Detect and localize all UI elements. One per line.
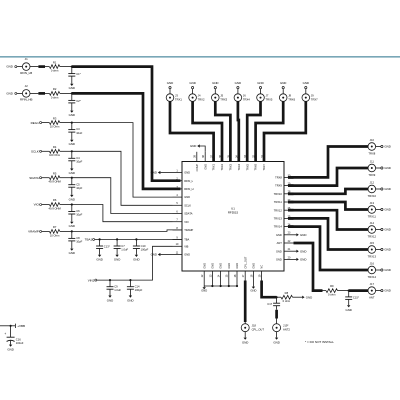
svg-text:GND: GND: [384, 208, 390, 212]
resistor R2 0 ohm: [49, 92, 59, 96]
U1 pin 5 SCLK (left): [173, 204, 183, 206]
svg-text:GND: GND: [384, 228, 390, 232]
svg-text:R2: R2: [53, 87, 57, 91]
svg-text:TRX4: TRX4: [243, 98, 250, 102]
ground below C14: [129, 296, 132, 298]
svg-text:RFIN_LB: RFIN_LB: [20, 71, 32, 75]
ground at J17: [381, 290, 383, 292]
svg-text:R6: R6: [53, 198, 57, 202]
svg-text:J1: J1: [25, 57, 28, 61]
svg-text:GND: GND: [69, 251, 75, 255]
svg-text:GND: GND: [384, 268, 390, 272]
svg-text:GND: GND: [96, 258, 102, 262]
ground below J19: [275, 338, 278, 340]
svg-text:TRX11: TRX11: [274, 200, 282, 204]
wire U1 TRX13 to J15: [288, 218, 368, 249]
svg-text:0 ohm: 0 ohm: [283, 299, 291, 303]
svg-text:J7: J7: [266, 94, 269, 98]
connector J10 TRX8: [368, 143, 376, 151]
U1 pin 7 VIO (left): [173, 221, 183, 223]
U1 pin 35 TRX3 (top): [229, 152, 231, 162]
svg-text:GND: GND: [69, 197, 75, 201]
capacitor C8 10pF: [71, 230, 73, 232]
svg-text:GND: GND: [133, 258, 139, 262]
svg-text:GND: GND: [189, 81, 195, 85]
svg-text:RF5515: RF5515: [228, 211, 239, 215]
svg-text:R4: R4: [53, 145, 57, 149]
ground below C16: [9, 345, 12, 347]
svg-text:TBA: TBA: [184, 238, 189, 242]
svg-text:GND: GND: [69, 86, 75, 90]
U1 pin 14 GND (bottom): [220, 271, 222, 281]
U1 pin 15 GND (bottom): [228, 271, 230, 281]
svg-text:TRX9: TRX9: [368, 173, 375, 177]
svg-text:+VBB: +VBB: [17, 324, 25, 328]
svg-text:TRX13: TRX13: [274, 217, 283, 221]
svg-text:C4: C4: [76, 156, 80, 160]
svg-text:C5: C5: [76, 182, 80, 186]
capacitor C4 10pF: [71, 150, 73, 152]
svg-text:VIB: VIB: [184, 244, 188, 248]
ground below C4: [70, 169, 73, 171]
svg-text:TRX12: TRX12: [274, 208, 283, 212]
ground at U1 right pin 21: [294, 250, 297, 252]
svg-text:TRX1: TRX1: [175, 98, 182, 102]
svg-text:RFIN_H: RFIN_H: [184, 187, 193, 191]
svg-text:TRX1: TRX1: [212, 163, 216, 170]
svg-text:SCLK: SCLK: [31, 150, 39, 154]
ground at U1 bottom pin 18: [252, 281, 254, 287]
svg-text:C10: C10: [141, 244, 146, 248]
U1 pin 9 TBA (left): [173, 238, 183, 240]
svg-text:GND: GND: [276, 258, 282, 262]
op-amp U1 body (IC RF5515 QFN outline): [182, 162, 284, 272]
wire REG1 to U1 pin 4: [72, 123, 173, 198]
svg-text:100pF: 100pF: [141, 247, 149, 251]
svg-text:J15: J15: [370, 241, 375, 245]
svg-text:J10: J10: [370, 138, 375, 142]
svg-text:GND: GND: [69, 113, 75, 117]
svg-text:GND: GND: [276, 233, 282, 237]
ground at J14: [381, 228, 383, 230]
svg-text:ANT: ANT: [369, 295, 375, 299]
svg-text:SDATA: SDATA: [29, 176, 39, 180]
svg-text:J9: J9: [311, 94, 314, 98]
page divider line: [0, 56, 400, 58]
ground below C5: [70, 195, 73, 197]
capacitor C5 10pF: [71, 177, 73, 179]
svg-text:GND: GND: [257, 81, 263, 85]
wire TRX4 connector to U1: [237, 101, 241, 161]
connector J14 TRX12: [368, 226, 376, 234]
svg-text:GND: GND: [69, 171, 75, 175]
svg-text:C16: C16: [16, 337, 21, 341]
svg-text:J17: J17: [370, 282, 375, 286]
svg-text:J4: J4: [198, 94, 201, 98]
svg-text:GND: GND: [69, 142, 75, 146]
svg-text:GND: GND: [235, 263, 239, 269]
svg-text:10pF: 10pF: [76, 160, 82, 164]
svg-text:10 Ohm: 10 Ohm: [50, 125, 60, 129]
svg-text:GND: GND: [250, 288, 256, 292]
U1 pin 18 GND (bottom): [252, 271, 254, 281]
ground at J15: [381, 248, 383, 250]
ground at J16: [381, 269, 383, 271]
svg-text:GND: GND: [201, 288, 207, 292]
connector J12 TRX10: [368, 185, 376, 193]
svg-text:10pF: 10pF: [76, 213, 82, 217]
ground below C8: [70, 249, 73, 251]
U1 pin 12 GND (bottom): [203, 271, 205, 281]
svg-text:GND: GND: [384, 187, 390, 191]
svg-text:GND: GND: [273, 341, 279, 345]
svg-text:TRX14: TRX14: [274, 225, 283, 229]
ground at J10: [381, 145, 383, 147]
svg-text:TRX10: TRX10: [368, 194, 377, 198]
ground at U1 right pin 20: [294, 258, 297, 260]
svg-text:10 Ohm: 10 Ohm: [50, 233, 60, 237]
ground at J12: [381, 188, 383, 190]
ground below C6: [70, 222, 73, 224]
svg-text:TRX14: TRX14: [368, 275, 377, 279]
svg-text:GND: GND: [276, 249, 282, 253]
svg-text:J3: J3: [175, 94, 178, 98]
svg-text:GND: GND: [227, 263, 231, 269]
node NC junction: [276, 296, 278, 298]
svg-text:TRX12: TRX12: [368, 234, 377, 238]
svg-text:C13*: C13*: [104, 245, 110, 249]
svg-text:GND: GND: [190, 144, 196, 148]
svg-text:GND: GND: [384, 166, 390, 170]
ground below C2*: [70, 111, 73, 113]
svg-text:C6: C6: [76, 209, 80, 213]
microstrip segment to J19: [275, 310, 278, 319]
svg-text:GND: GND: [300, 249, 306, 253]
U1 pin 38 GND (top): [204, 152, 206, 162]
svg-text:CPL_OUT: CPL_OUT: [243, 256, 247, 268]
svg-text:GND: GND: [211, 263, 215, 269]
svg-text:TRX7: TRX7: [311, 98, 318, 102]
svg-text:J5: J5: [220, 94, 223, 98]
svg-text:VIN2: VIN2: [88, 278, 95, 282]
svg-text:TRX6: TRX6: [254, 163, 258, 170]
svg-text:ANT: ANT: [277, 241, 283, 245]
ground at U1 right pin 23: [294, 234, 297, 236]
svg-text:10pF: 10pF: [76, 186, 82, 190]
svg-text:R7: R7: [53, 225, 57, 229]
U1 pin 4 GND (left): [173, 196, 183, 198]
svg-text:TRX4: TRX4: [237, 163, 241, 170]
svg-text:TRX3: TRX3: [229, 163, 233, 170]
svg-text:GND: GND: [69, 224, 75, 228]
U1 pin 22 ANT (right): [284, 242, 294, 244]
wire TRX2 connector to U1: [193, 101, 222, 161]
resistor R5 49.9 OHM: [49, 176, 59, 180]
U1 pin 36 TRX2 (top): [221, 152, 223, 162]
svg-text:GND: GND: [202, 263, 206, 269]
svg-text:GND: GND: [184, 195, 190, 199]
svg-text:0 ohm: 0 ohm: [51, 95, 59, 99]
U1 pin 1 GND (left): [173, 172, 183, 174]
capacitor C9 on VIN2: [109, 279, 111, 281]
wire RFIN_LB to U1 pin 2 RFIN_L: [72, 67, 181, 181]
svg-text:GND: GND: [203, 164, 207, 170]
svg-text:TRX3: TRX3: [220, 98, 227, 102]
svg-text:TRX11: TRX11: [368, 214, 377, 218]
svg-text:TRX8: TRX8: [368, 151, 375, 155]
svg-text:R5: R5: [53, 171, 57, 175]
ground bus for U1 bottom pins 12-16: [203, 281, 205, 287]
connector J17 ANT: [368, 287, 376, 295]
svg-text:TRX9: TRX9: [275, 184, 282, 188]
svg-text:GND: GND: [184, 253, 190, 257]
svg-text:TRX5: TRX5: [266, 98, 273, 102]
connector J16 TRX14: [368, 266, 376, 274]
capacitor C7 on TBA1: [116, 238, 118, 240]
svg-text:GND: GND: [212, 81, 218, 85]
svg-text:C17: C17: [267, 302, 272, 306]
svg-text:+: +: [4, 332, 6, 336]
resistor R4 100 Ohm: [49, 149, 59, 153]
svg-text:J13: J13: [370, 201, 375, 205]
svg-text:ANT2: ANT2: [283, 327, 290, 331]
svg-text:TRAMP: TRAMP: [184, 228, 193, 232]
svg-text:GND: GND: [107, 298, 113, 302]
U1 pin 32 TRX6 (top): [255, 152, 257, 162]
capacitor C2*: [71, 92, 73, 94]
resistor R8 0 ohm: [281, 295, 293, 299]
U1 pin 20 GND (right): [284, 258, 294, 260]
svg-text:GND: GND: [235, 81, 241, 85]
svg-text:J16: J16: [370, 261, 375, 265]
svg-text:GND: GND: [280, 81, 286, 85]
U1 pin 21 GND (right): [284, 250, 294, 252]
svg-text:GND: GND: [300, 258, 306, 262]
svg-text:VIO: VIO: [184, 220, 188, 224]
connector J19* ANT2: [273, 324, 281, 332]
svg-text:C15*: C15*: [353, 296, 359, 300]
resistor R6 49.9 OHM: [49, 203, 59, 207]
svg-text:J12: J12: [370, 180, 375, 184]
svg-text:COUP: COUP: [195, 164, 199, 172]
svg-text:TRX8: TRX8: [275, 176, 282, 180]
U1 pin 23 GND (right): [284, 234, 294, 236]
wire U1 TRX11 to J13: [288, 202, 368, 210]
svg-text:GND: GND: [167, 81, 173, 85]
node ANT junction: [348, 290, 350, 292]
svg-text:TRX13: TRX13: [368, 254, 377, 258]
svg-text:TRX5: TRX5: [245, 163, 249, 170]
wire TRX1 connector to U1: [170, 101, 214, 161]
U1 pin 3 RFIN_H (left): [173, 188, 183, 190]
U1 pin 13 GND (bottom): [211, 271, 213, 281]
svg-text:C9: C9: [114, 285, 118, 289]
U1 pin 19 NC (bottom): [261, 271, 263, 281]
svg-text:C1*: C1*: [76, 72, 80, 76]
svg-text:C8: C8: [76, 236, 80, 240]
svg-text:GND: GND: [6, 92, 12, 96]
U1 pin 37 TRX1 (top): [213, 152, 215, 162]
wire SDATA to U1 pin 6: [72, 178, 173, 214]
wire U1 TRX8 to J10: [288, 147, 368, 178]
svg-text:GND: GND: [252, 263, 256, 269]
connector J11 TRX9: [368, 164, 376, 172]
ground after R8: [302, 296, 304, 299]
wire U1 NC pin to coupler network: [262, 281, 277, 298]
wire U1 TRX10 to J12: [288, 189, 368, 194]
svg-text:GND: GND: [114, 258, 120, 262]
svg-text:GND: GND: [184, 171, 190, 175]
svg-text:GND: GND: [151, 171, 157, 175]
U1 pin 34 TRX4 (top): [238, 152, 240, 162]
ground below C10: [135, 255, 138, 257]
microstrip segment at RFIN_LB: [38, 65, 45, 68]
wire to ANT connector: [349, 289, 368, 292]
svg-text:RFIN_HB: RFIN_HB: [20, 98, 32, 102]
svg-text:GND: GND: [242, 341, 248, 345]
capacitor C6 10pF: [71, 203, 73, 205]
svg-text:GND: GND: [384, 289, 390, 293]
svg-text:GND: GND: [219, 263, 223, 269]
svg-text:C7: C7: [121, 244, 125, 248]
capacitor C15*: [348, 291, 350, 297]
svg-text:NC: NC: [260, 265, 264, 269]
capacitor C14 on VIN2: [129, 279, 131, 281]
svg-text:C2*: C2*: [76, 99, 80, 103]
capacitor C13* on TBA1: [99, 238, 101, 240]
ground at J13: [381, 208, 383, 210]
svg-text:J6: J6: [243, 94, 246, 98]
svg-text:GND: GND: [306, 295, 312, 299]
ground symbol on bottom bus: [203, 287, 206, 289]
svg-text:100uF: 100uF: [16, 341, 24, 345]
svg-text:TRX7: TRX7: [262, 163, 266, 170]
ground below C1*: [70, 84, 73, 86]
svg-text:VRAMP: VRAMP: [28, 230, 39, 234]
svg-text:CPL_OUT: CPL_OUT: [252, 327, 265, 331]
U1 pin 17 CPL_OUT (bottom): [244, 271, 246, 281]
capacitor C10 on TBA1: [135, 238, 137, 240]
resistor R3 10 Ohm: [49, 121, 59, 125]
svg-text:GND: GND: [127, 298, 133, 302]
svg-text:0 ohm: 0 ohm: [328, 293, 336, 297]
wire CPL_OUT to J18: [244, 281, 247, 323]
microstrip segment at RFIN_HB: [38, 92, 45, 95]
svg-text:R9: R9: [330, 284, 334, 288]
wire SCLK to U1 pin 5: [72, 151, 173, 205]
svg-text:J19*: J19*: [283, 323, 288, 327]
resistor R7 10 Ohm: [49, 230, 59, 234]
U1 pin 33 TRX5 (top): [246, 152, 248, 162]
svg-text:SDATA: SDATA: [184, 212, 193, 216]
svg-text:C3: C3: [76, 127, 80, 131]
svg-text:R1: R1: [53, 60, 57, 64]
svg-text:REG1: REG1: [31, 121, 40, 125]
svg-text:J11: J11: [370, 159, 375, 163]
U1 pin 16 GND (bottom): [236, 271, 238, 281]
wire VIO to U1 pin 7: [72, 205, 173, 222]
svg-text:J18: J18: [252, 323, 257, 327]
ground below C9: [108, 296, 111, 298]
svg-text:100pF: 100pF: [135, 288, 143, 292]
ground below C7: [115, 255, 118, 257]
svg-text:SCLK: SCLK: [184, 203, 191, 207]
svg-text:10uF: 10uF: [76, 131, 82, 135]
connector J13 TRX11: [368, 206, 376, 214]
U1 pin 24 TRX14 (right): [284, 226, 294, 228]
svg-text:TRX10: TRX10: [274, 192, 283, 196]
svg-text:1.0uF: 1.0uF: [114, 288, 121, 292]
svg-text:1.0uF: 1.0uF: [121, 247, 128, 251]
svg-text:49.9 OHM: 49.9 OHM: [48, 206, 61, 210]
svg-text:49.9 OHM: 49.9 OHM: [48, 180, 61, 184]
svg-text:100 Ohm: 100 Ohm: [49, 153, 61, 157]
wire TRX6 connector to U1: [256, 101, 284, 161]
connector J18 CPL_OUT: [241, 324, 249, 332]
capacitor C3 10uF: [71, 122, 73, 124]
wire U1 TRX9 to J11: [288, 168, 368, 186]
wire U1 TRX12 to J14: [288, 210, 368, 229]
wire TRX7 connector to U1: [264, 101, 306, 161]
resistor R9 0 ohm: [326, 289, 338, 293]
U1 pin 26 TRX12 (right): [284, 209, 294, 211]
svg-text:R3: R3: [53, 116, 57, 120]
svg-text:GND: GND: [384, 145, 390, 149]
svg-text:* = DO NOT INSTALL: * = DO NOT INSTALL: [305, 340, 334, 344]
svg-text:RFIN_L: RFIN_L: [184, 179, 193, 183]
node +VBB supply entry: [0, 325, 15, 327]
U1 pin 39 COUP (top): [196, 152, 198, 162]
wire RFIN_HB to U1 pin 3 RFIN_H: [72, 93, 181, 188]
U1 pin 28 TRX10 (right): [284, 193, 294, 195]
svg-text:TBA1: TBA1: [85, 238, 93, 242]
U1 pin 30 TRX8 (right): [284, 176, 294, 178]
ground at J11: [381, 167, 383, 169]
U1 pin 25 TRX13 (right): [284, 217, 294, 219]
svg-text:GND: GND: [384, 248, 390, 252]
U1 pin 8 TRAMP (left): [173, 229, 183, 231]
svg-text:TRX2: TRX2: [220, 163, 224, 170]
svg-text:C14: C14: [135, 285, 140, 289]
svg-text:TRX2: TRX2: [198, 98, 205, 102]
svg-text:GND: GND: [303, 81, 309, 85]
svg-text:GND: GND: [6, 65, 12, 69]
U1 pin 6 SDATA (left): [173, 213, 183, 215]
wire U1 TRX14 to J16: [288, 227, 368, 270]
capacitor C1*: [71, 66, 73, 68]
ground below J18: [244, 338, 247, 340]
wire TRX5 connector to U1: [247, 101, 260, 161]
U1 pin 31 TRX7 (top): [263, 152, 265, 162]
ground below C3: [70, 140, 73, 142]
wire VRAMP to U1 pin 8: [72, 230, 182, 232]
ground below C15: [347, 305, 350, 307]
svg-text:GND: GND: [7, 347, 13, 351]
svg-text:10pF: 10pF: [76, 240, 82, 244]
svg-text:GND: GND: [300, 233, 306, 237]
svg-text:J2: J2: [25, 84, 28, 88]
svg-text:TRX6: TRX6: [288, 98, 295, 102]
U1 pin 11 GND (left): [173, 254, 183, 256]
resistor R1 0 ohm: [49, 65, 59, 69]
capacitor C17: [276, 297, 278, 303]
U1 pin 29 TRX9 (right): [284, 185, 294, 187]
svg-text:VIO: VIO: [34, 203, 40, 207]
connector J15 TRX13: [368, 246, 376, 254]
svg-text:GND: GND: [345, 308, 351, 312]
wire U1 ANT pin to antenna network: [294, 243, 323, 291]
U1 pin 2 RFIN_L (left): [173, 180, 183, 182]
